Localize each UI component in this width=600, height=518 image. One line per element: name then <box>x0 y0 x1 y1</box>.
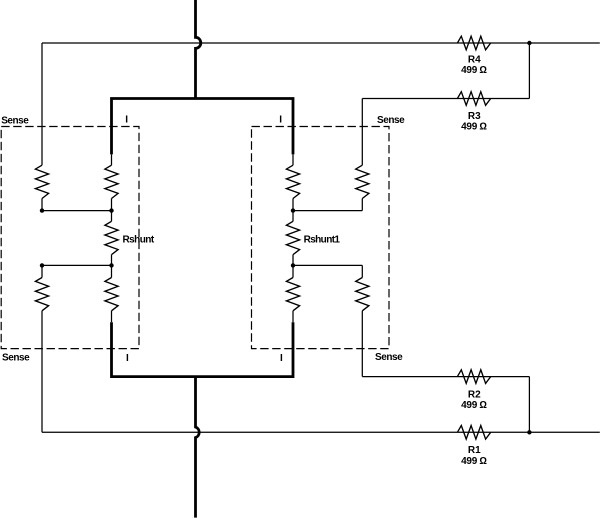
svg-text:R2: R2 <box>468 389 481 400</box>
svg-text:499 Ω: 499 Ω <box>461 456 487 467</box>
svg-text:I: I <box>279 114 282 125</box>
svg-text:I: I <box>280 353 283 364</box>
svg-text:499 Ω: 499 Ω <box>461 400 487 411</box>
svg-text:R3: R3 <box>468 111 481 122</box>
svg-text:Sense: Sense <box>2 353 30 364</box>
svg-text:499 Ω: 499 Ω <box>461 122 487 133</box>
svg-text:Sense: Sense <box>1 116 29 127</box>
svg-text:Rshunt1: Rshunt1 <box>304 235 341 246</box>
svg-text:R1: R1 <box>468 445 481 456</box>
svg-text:I: I <box>126 353 129 364</box>
svg-text:Sense: Sense <box>377 115 405 126</box>
svg-text:Sense: Sense <box>375 352 403 363</box>
svg-text:499 Ω: 499 Ω <box>461 65 487 76</box>
svg-text:I: I <box>125 115 128 126</box>
svg-text:Rshunt: Rshunt <box>123 235 155 246</box>
